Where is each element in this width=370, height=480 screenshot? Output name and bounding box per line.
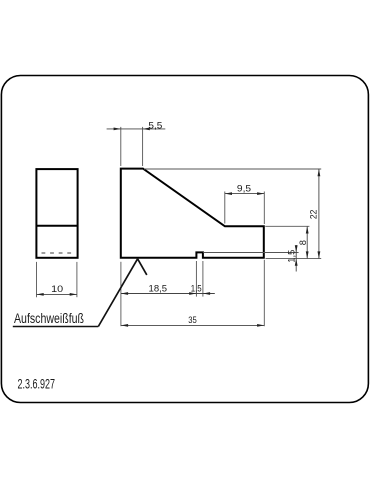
svg-text:1,5: 1,5 (286, 250, 296, 263)
svg-text:1,5: 1,5 (191, 283, 202, 293)
dimension 9,5 arrow left (225, 192, 232, 195)
leader underline for Aufschweissfuss (13, 326, 99, 328)
dimension 1,5 notch-height arrow top (outside, pointing down) (295, 245, 298, 252)
side view step line (36, 225, 77, 227)
dimension 1,5 notch-height line (295, 245, 297, 272)
shared bottom extension line right side (266, 258, 322, 260)
dimension 35 line (121, 324, 264, 326)
dimension 1,5 slot extension line left (195, 261, 197, 297)
dimension 22 arrow top (318, 169, 321, 176)
dimension 5,5 arrow left (outside, pointing right) (114, 128, 121, 131)
dimension 18,5 arrow left (121, 292, 128, 295)
dimension 22 line (318, 169, 320, 259)
svg-text:8: 8 (298, 240, 308, 245)
dimension 35 arrow left (121, 324, 128, 327)
svg-text:35: 35 (188, 315, 197, 325)
dimension 10 arrow right (70, 293, 77, 296)
dimension 8 extension line top (265, 225, 309, 227)
dimension 10 arrow left (37, 293, 44, 296)
dimension 1,5 slot extension line right (202, 261, 204, 297)
dimension 10 extension line right (76, 262, 78, 297)
svg-text:22: 22 (309, 210, 319, 220)
dimension 5,5 line (107, 128, 166, 130)
dimension 5,5 extension line right (142, 127, 144, 166)
svg-text:9,5: 9,5 (237, 184, 251, 194)
dimension 1,5 slot arrow (outside, pointing left, tip at 202.9) (203, 292, 210, 295)
main profile outline with notch (121, 169, 264, 258)
dimension 9,5 arrow right (257, 192, 264, 195)
dimension 22 extension line top (144, 168, 321, 170)
leader branch line (weld V) (138, 259, 147, 275)
dimension 10 extension line left (36, 262, 38, 297)
dimension 18,5 line with tail (121, 293, 215, 295)
side view hidden dashed line (42, 252, 72, 254)
dimension 9,5 extension line right (263, 192, 265, 225)
dimension 8 line (306, 226, 308, 258)
side view rectangle (36, 169, 77, 258)
drawing frame (rounded border) (1, 76, 368, 403)
svg-text:5,5: 5,5 (148, 121, 162, 131)
dimension 8 arrow bottom (306, 251, 309, 258)
dimension 9,5 line (225, 193, 264, 195)
svg-text:10: 10 (51, 284, 63, 294)
dimension 35 extension line right (shared) (263, 260, 265, 326)
dimension 5,5 arrow right (outside, pointing left) (143, 128, 150, 131)
dimension 10 line (37, 293, 77, 295)
dimension 8 arrow top (306, 226, 309, 233)
dimension 18,5 arrow right (pointing right, tip at 196.4) (189, 292, 196, 295)
leader diagonal line (98, 259, 137, 327)
dimension 1,5 notch-height extension line (203, 252, 298, 254)
dimension 18,5 extension line left (shared with 35) (120, 262, 122, 326)
svg-text:18,5: 18,5 (149, 283, 168, 293)
svg-text:Aufschweißfuß: Aufschweißfuß (14, 311, 84, 326)
dimension 35 arrow right (257, 324, 264, 327)
svg-text:2.3.6.927: 2.3.6.927 (18, 376, 56, 391)
dimension 22 arrow bottom (318, 251, 321, 258)
dimension 9,5 extension line left (224, 192, 226, 224)
dimension 1,5 notch-height arrow bottom (outside, pointing up) (295, 259, 298, 266)
dimension 5,5 extension line left (120, 127, 122, 166)
